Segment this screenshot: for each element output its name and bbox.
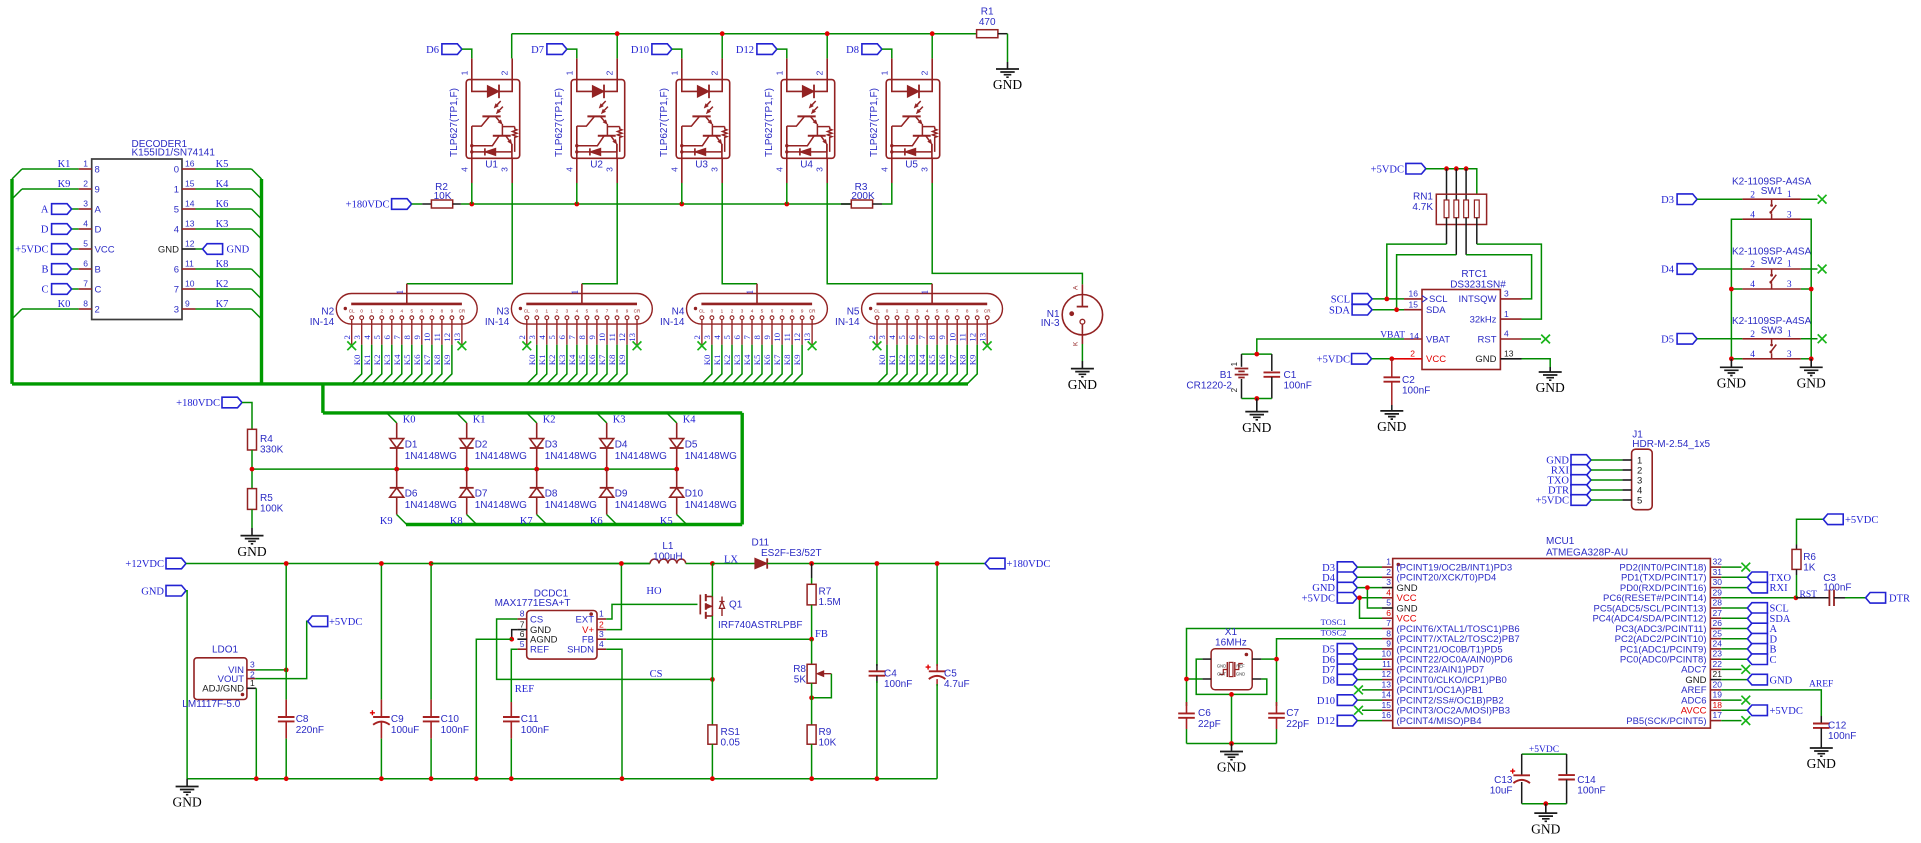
junction SCL <box>1384 297 1389 302</box>
port +180VDC (opto rail) <box>346 199 412 211</box>
svg-text:4: 4 <box>537 335 547 340</box>
svg-text:1: 1 <box>370 308 373 313</box>
port GND (J1) <box>1546 455 1591 467</box>
MCU1 pin 7 (PCINT6/XTAL1/TOSC1)PB6 <box>1382 618 1520 635</box>
svg-text:0: 0 <box>886 308 889 313</box>
wire net K5 (decoder right) <box>196 159 262 179</box>
bus entry K1 (matrix top) <box>457 413 486 426</box>
wire SW3 pin1 no-connect <box>1801 338 1818 340</box>
svg-text:D3: D3 <box>1661 195 1674 206</box>
MCU pin 17 no-connect X <box>1721 716 1750 725</box>
wire VOUT to +5VDC port <box>255 621 307 678</box>
svg-text:ADJ/GND: ADJ/GND <box>202 684 244 695</box>
svg-text:4: 4 <box>401 308 404 313</box>
svg-text:3: 3 <box>83 199 88 209</box>
diode D9 1N4148WG <box>600 469 667 514</box>
svg-text:7: 7 <box>742 335 752 340</box>
svg-text:D12: D12 <box>736 45 754 56</box>
wire X1 GND loop <box>1196 659 1267 743</box>
capacitor C7 22pF <box>1268 702 1309 744</box>
port D6 (MCU) <box>1322 654 1357 666</box>
svg-text:+5VDC: +5VDC <box>329 617 362 628</box>
ground symbol (battery) <box>1256 399 1258 412</box>
svg-text:2: 2 <box>517 335 527 339</box>
wire GND port to pins 3,5 <box>1357 588 1382 608</box>
svg-text:+5VDC: +5VDC <box>1302 594 1335 605</box>
RTC1 pin 13 GND <box>1475 349 1521 366</box>
RTC1 pin 14 VBAT <box>1404 331 1450 345</box>
svg-text:1: 1 <box>599 609 604 619</box>
svg-text:13: 13 <box>627 332 637 341</box>
svg-text:HO: HO <box>646 586 662 597</box>
wire N5 cathode K1 to bus <box>887 345 897 384</box>
svg-text:X1: X1 <box>1225 627 1238 638</box>
MCU1 pin 28 PC5(ADC5/SCL/PCINT13) <box>1594 598 1723 615</box>
junction on anode rail at U4 <box>825 31 830 36</box>
svg-text:1: 1 <box>1386 557 1391 567</box>
svg-text:D7: D7 <box>475 489 488 500</box>
svg-text:K1: K1 <box>362 355 372 366</box>
svg-text:17: 17 <box>1713 710 1723 720</box>
N3 pin 13 no-connect X <box>633 341 642 350</box>
capacitor C11 100nF <box>503 702 549 779</box>
port +5VDC (RTC VCC) <box>1317 354 1372 366</box>
svg-text:+5VDC: +5VDC <box>1529 745 1559 755</box>
svg-text:3: 3 <box>815 167 825 172</box>
port +180VDC (boost output) <box>985 558 1050 570</box>
svg-text:C: C <box>41 285 48 296</box>
wire V+ pin2 to +12V rail <box>606 564 621 630</box>
N4 pin 5 (2) <box>722 308 734 344</box>
port B (decoder input) <box>41 264 78 276</box>
svg-text:D8: D8 <box>545 489 558 500</box>
svg-text:K9: K9 <box>967 354 977 365</box>
svg-text:TOSC1: TOSC1 <box>1321 617 1347 627</box>
wire R3 to U5 pin4 <box>882 183 892 204</box>
U1 internal output transistor Q-B <box>473 136 512 152</box>
svg-text:2: 2 <box>731 308 734 313</box>
svg-text:13: 13 <box>802 332 812 341</box>
wire TOSC2 (pin8 to crystal) <box>1277 628 1383 707</box>
wire N2 cathode K4 to bus <box>392 345 402 384</box>
svg-text:4: 4 <box>362 335 372 340</box>
wire U3 pin3 to nixie N4 anode <box>722 183 757 284</box>
svg-text:3: 3 <box>391 308 394 313</box>
svg-text:GND: GND <box>1236 672 1245 677</box>
junction ground rail at AGND <box>474 776 479 781</box>
diode D1 1N4148WG <box>390 423 457 469</box>
bus entry K5 (matrix bottom) <box>660 515 687 528</box>
svg-text:2: 2 <box>381 308 384 313</box>
junction +12V rail at V+ <box>619 561 624 566</box>
svg-text:K3: K3 <box>216 219 229 230</box>
svg-text:6: 6 <box>382 335 392 340</box>
svg-text:4: 4 <box>774 167 784 172</box>
MCU1 pin 24 PC1(ADC1/PCINT9) <box>1620 639 1722 656</box>
ground symbol (RTC) <box>1549 367 1551 372</box>
wire CS pin8 loop <box>497 619 713 679</box>
N2 pin 7 (4) <box>392 308 404 344</box>
MCU1 pin 26 PC3(ADC3/PCINT11) <box>1615 618 1722 635</box>
bus diode matrix top (K0-K4) <box>323 411 742 414</box>
svg-text:3: 3 <box>702 335 712 340</box>
wire +180VDC to R2 <box>412 203 423 205</box>
svg-text:1N4148WG: 1N4148WG <box>475 500 527 511</box>
svg-text:2: 2 <box>605 70 615 75</box>
junction VCC/C2 <box>1389 356 1394 361</box>
bus entry K3 (matrix top) <box>597 413 626 426</box>
wire X1 OUT to TOSC1 <box>1186 678 1203 680</box>
svg-text:5: 5 <box>936 308 939 313</box>
U1 internal protection diode <box>470 126 512 158</box>
port RXI (J1) <box>1551 465 1591 477</box>
bus left vertical (K0-K9) <box>10 179 13 384</box>
svg-text:3: 3 <box>916 308 919 313</box>
wire N3 cathode K3 to bus <box>557 345 567 384</box>
svg-text:K9: K9 <box>792 354 802 365</box>
svg-text:VBAT: VBAT <box>1380 330 1405 340</box>
svg-text:1N4148WG: 1N4148WG <box>545 500 597 511</box>
svg-text:CS: CS <box>650 669 663 680</box>
svg-text:K2: K2 <box>216 279 229 290</box>
DCDC1 pin 1 EXT <box>576 609 607 626</box>
svg-text:R9: R9 <box>819 727 832 738</box>
svg-text:D: D <box>41 225 49 236</box>
bus entry K2 (matrix top) <box>527 413 556 426</box>
decoder pin 16 (0) <box>174 159 196 176</box>
svg-text:K7: K7 <box>772 354 782 365</box>
svg-text:16: 16 <box>185 159 195 169</box>
N4 pin 11 (8) <box>782 308 794 344</box>
svg-text:GND: GND <box>1217 760 1246 775</box>
junction RST <box>1794 595 1799 600</box>
svg-text:1: 1 <box>1787 330 1792 340</box>
svg-text:5: 5 <box>174 204 179 215</box>
junction GND pins <box>1365 585 1370 590</box>
svg-text:C14: C14 <box>1577 775 1596 786</box>
wire REF pin5 to C11 <box>511 649 517 702</box>
wire net K1 (decoder left) <box>12 159 79 179</box>
port D3 <box>1661 194 1697 206</box>
wire N2 cathode K3 to bus <box>382 345 392 384</box>
svg-text:4: 4 <box>459 167 469 172</box>
wire U3 pin2 drop <box>721 34 723 59</box>
svg-text:0: 0 <box>536 308 539 313</box>
svg-text:K3: K3 <box>907 354 917 365</box>
svg-text:20: 20 <box>1713 679 1723 689</box>
svg-text:100nF: 100nF <box>441 725 469 736</box>
svg-text:TLP627(TP1,F): TLP627(TP1,F) <box>869 88 880 157</box>
svg-text:1: 1 <box>250 678 255 688</box>
svg-text:+5VDC: +5VDC <box>1770 706 1803 717</box>
N1 cathode pin K <box>1072 324 1082 346</box>
svg-text:CR: CR <box>984 308 991 313</box>
svg-text:U1: U1 <box>485 159 498 170</box>
svg-text:K0: K0 <box>877 354 887 365</box>
wire R6 to +5VDC <box>1797 519 1824 544</box>
svg-text:GND: GND <box>1377 419 1406 434</box>
svg-text:5K: 5K <box>794 675 807 686</box>
N2 pin 11 (8) <box>432 308 444 344</box>
junction ground rail at C10 <box>429 776 434 781</box>
resistor R6 1K <box>1792 545 1816 598</box>
svg-text:RXI: RXI <box>1770 583 1789 594</box>
N3 pin 2 no-connect X <box>522 341 531 350</box>
svg-text:6: 6 <box>557 335 567 340</box>
svg-text:C9: C9 <box>391 714 404 725</box>
svg-text:7: 7 <box>956 308 959 313</box>
svg-text:100nF: 100nF <box>1577 786 1605 797</box>
N1 anode pin A <box>1072 284 1088 306</box>
U3 internal output transistor Q-B <box>683 136 722 152</box>
U4 internal phototransistor Q-A <box>787 116 818 135</box>
wire N2 cathode K1 to bus <box>362 345 372 384</box>
wire D7 to U2 pin1 <box>567 49 577 58</box>
svg-text:D2: D2 <box>475 440 488 451</box>
resistor RS1 0.05 <box>708 679 741 778</box>
svg-text:AREF: AREF <box>1809 680 1833 690</box>
svg-text:8: 8 <box>927 335 937 340</box>
decoder pin 8 (2) <box>79 299 100 316</box>
wire D8 to MCU <box>1357 679 1382 681</box>
svg-text:220nF: 220nF <box>296 725 324 736</box>
svg-text:K9: K9 <box>58 179 71 190</box>
N2 pin 13 no-connect X <box>458 341 467 350</box>
svg-text:22: 22 <box>1713 659 1723 669</box>
svg-text:2: 2 <box>599 619 604 629</box>
svg-text:9: 9 <box>762 335 772 340</box>
svg-text:VCC: VCC <box>95 244 115 255</box>
wire RESET to RST node <box>1721 597 1796 599</box>
wire anode rail (top, to R1) <box>512 33 977 35</box>
svg-text:K8: K8 <box>216 259 229 270</box>
junction +12V rail at C10 <box>429 561 434 566</box>
battery B1 CR1220-2 <box>1186 354 1248 398</box>
N4 pin 12 (9) <box>792 308 804 344</box>
svg-text:SCL: SCL <box>1429 294 1447 305</box>
J1 pin 5 <box>1622 495 1642 506</box>
svg-text:10: 10 <box>422 332 432 341</box>
junction ground rail at C4 <box>875 776 880 781</box>
ground symbol (decoupling) <box>1545 804 1547 813</box>
svg-text:CL: CL <box>349 308 355 313</box>
LDO1 pin 1 ADJ/GND <box>202 678 256 695</box>
svg-text:1: 1 <box>921 289 931 294</box>
N2 pin 3 (0) <box>352 308 364 344</box>
svg-text:K1: K1 <box>473 415 486 426</box>
svg-text:K1: K1 <box>712 355 722 366</box>
U2 internal base-emitter resistor <box>607 127 622 152</box>
diode D5 1N4148WG <box>670 423 737 469</box>
U2 internal light arrows <box>599 101 608 114</box>
svg-text:3: 3 <box>599 629 604 639</box>
svg-text:D6: D6 <box>405 489 418 500</box>
wire switch ground rail left <box>1731 219 1742 359</box>
N4 pin 2 no-connect X <box>698 341 707 350</box>
N4 pin 10 (7) <box>772 308 784 344</box>
junction LX <box>710 561 715 566</box>
svg-text:K3: K3 <box>382 354 392 365</box>
svg-text:5: 5 <box>722 335 732 340</box>
svg-text:1: 1 <box>1230 361 1239 366</box>
svg-text:1N4148WG: 1N4148WG <box>475 451 527 462</box>
svg-text:1: 1 <box>669 70 679 75</box>
junction emitter rail at U3 pin4 <box>679 202 684 207</box>
svg-text:6: 6 <box>596 308 599 313</box>
wire net K4 (decoder right) <box>196 179 262 199</box>
bus drop to diode matrix <box>321 384 324 413</box>
port C (MCU right) <box>1721 654 1776 666</box>
svg-text:4: 4 <box>599 639 604 649</box>
svg-text:C10: C10 <box>441 714 460 725</box>
svg-text:R5: R5 <box>260 493 273 504</box>
svg-text:C12: C12 <box>1828 721 1847 732</box>
svg-text:32: 32 <box>1713 557 1723 567</box>
wire +5VDC to VCC <box>1372 358 1392 360</box>
svg-text:K4: K4 <box>742 354 752 365</box>
wire EXT pin1 to HO <box>606 604 697 619</box>
svg-text:16: 16 <box>1409 289 1419 299</box>
U4 internal output transistor Q-B <box>788 136 827 152</box>
junction AGND <box>509 637 514 642</box>
svg-text:5: 5 <box>411 308 414 313</box>
svg-text:K3: K3 <box>613 415 626 426</box>
svg-text:K7: K7 <box>597 354 607 365</box>
capacitor C3 100nF <box>1796 573 1852 606</box>
wire C3 to DTR <box>1845 597 1866 599</box>
svg-text:B: B <box>95 264 101 275</box>
svg-text:K5: K5 <box>216 159 229 170</box>
wire FB pin3 to FB node <box>606 638 811 640</box>
svg-text:IN-3: IN-3 <box>1041 318 1060 329</box>
U4 pin 4 (emitter) <box>774 158 787 183</box>
wire crystal ground rail <box>1187 743 1277 745</box>
N4 pin 2 (CL) <box>692 308 705 344</box>
MCU1 pin 4 VCC <box>1382 587 1417 604</box>
svg-text:6: 6 <box>1386 608 1391 618</box>
wire D7 to MCU <box>1357 668 1382 670</box>
U5 internal LED <box>892 80 932 99</box>
inductor L1 100uH <box>650 541 686 564</box>
svg-text:GND: GND <box>227 245 250 256</box>
N2 pin 10 (7) <box>422 308 434 344</box>
svg-text:8: 8 <box>441 308 444 313</box>
MCU1 pin 30 PD0(RXD/PCINT16) <box>1620 577 1722 594</box>
port +180VDC (divider) <box>176 397 242 409</box>
capacitor C4 100nF <box>869 564 913 779</box>
wire D8 to U5 pin1 <box>882 49 892 58</box>
wire N4 cathode K7 to bus <box>772 345 782 384</box>
U1 pin 2 (cathode) <box>500 58 513 79</box>
svg-text:GND: GND <box>158 244 179 255</box>
svg-text:K3: K3 <box>557 354 567 365</box>
N3 pin 8 (5) <box>577 308 589 344</box>
svg-text:2: 2 <box>710 70 720 75</box>
IC MCU1 ATMEGA328P-AU body <box>1393 536 1711 728</box>
port RXI (MCU) <box>1721 582 1788 594</box>
U4 internal base-emitter resistor <box>817 127 832 152</box>
svg-text:K0: K0 <box>527 354 537 365</box>
junction VCC pins <box>1357 595 1362 600</box>
RTC1 pin 3 INTSQW <box>1459 289 1522 306</box>
svg-text:13: 13 <box>1504 349 1514 359</box>
wire U2 pin3 to nixie N3 anode <box>582 183 617 284</box>
svg-text:K4: K4 <box>567 354 577 365</box>
svg-text:(PCINT4/MISO)PB4: (PCINT4/MISO)PB4 <box>1397 716 1482 727</box>
svg-text:C13: C13 <box>1494 775 1513 786</box>
port TXO (J1) <box>1547 475 1591 487</box>
wire N3 cathode K1 to bus <box>537 345 547 384</box>
wire D3 to SW1 pin2 <box>1697 198 1742 200</box>
regulator LDO1 LM1117F-5.0 body <box>182 645 247 711</box>
decoder pin 9 (3) <box>174 299 196 316</box>
svg-text:7: 7 <box>520 619 525 629</box>
svg-text:1: 1 <box>774 70 784 75</box>
junction +5V at RN1 column 1446 <box>1444 166 1449 171</box>
svg-text:2: 2 <box>342 335 352 339</box>
svg-text:LM1117F-5.0: LM1117F-5.0 <box>182 699 240 710</box>
junction SW2-4 <box>1729 287 1734 292</box>
svg-text:K5: K5 <box>402 354 412 365</box>
svg-text:0.05: 0.05 <box>721 738 741 749</box>
svg-text:22pF: 22pF <box>1286 719 1309 730</box>
wire SW3 row2 left stub <box>1731 358 1742 360</box>
svg-text:GND: GND <box>1068 377 1097 392</box>
svg-text:D4: D4 <box>1661 265 1675 276</box>
bus entry K8 (matrix bottom) <box>450 515 477 528</box>
svg-text:100K: 100K <box>260 504 284 515</box>
svg-text:VBAT: VBAT <box>1426 334 1450 345</box>
LDO1 pin 2 VOUT <box>218 670 256 685</box>
DCDC1 pin 3 FB <box>582 629 606 646</box>
wire N4 cathode K0 to bus <box>702 345 712 384</box>
svg-text:1: 1 <box>564 70 574 75</box>
N3 pin 6 (3) <box>557 308 569 344</box>
svg-text:12: 12 <box>442 333 452 342</box>
svg-text:3: 3 <box>741 308 744 313</box>
junction +180V rail at R7 <box>809 561 814 566</box>
svg-text:200K: 200K <box>851 191 875 202</box>
svg-text:5: 5 <box>586 308 589 313</box>
svg-text:100uF: 100uF <box>391 725 419 736</box>
decoder pin 5 (VCC) <box>79 239 115 256</box>
MCU1 pin 5 GND <box>1382 598 1418 615</box>
svg-text:+5VDC: +5VDC <box>1536 496 1569 507</box>
optocoupler U1 TLP627 body <box>449 80 520 171</box>
N3 pin 4 (1) <box>537 308 549 344</box>
MCU pin 32 no-connect X <box>1721 563 1750 572</box>
svg-text:28: 28 <box>1713 598 1723 608</box>
wire U4 pin2 drop <box>826 34 828 59</box>
svg-text:K4: K4 <box>917 354 927 365</box>
svg-text:K0: K0 <box>58 299 71 310</box>
wire X1 REF to TOSC2 <box>1261 658 1276 660</box>
svg-text:C11: C11 <box>521 714 539 725</box>
svg-text:5: 5 <box>372 335 382 340</box>
decoder pin 15 (1) <box>174 179 196 196</box>
svg-text:A: A <box>1072 285 1079 290</box>
ground symbol (N1) <box>1081 361 1083 369</box>
U5 pin 3 (collector) <box>920 158 933 183</box>
junction SW3-3 <box>1809 356 1814 361</box>
RTC1 pin 15 SDA <box>1404 299 1446 316</box>
U2 pin 4 (emitter) <box>564 158 577 183</box>
svg-text:K4: K4 <box>683 415 697 426</box>
MCU1 pin 23 PC0(ADC0/PCINT8) <box>1620 649 1722 666</box>
svg-text:5: 5 <box>1386 598 1391 608</box>
svg-text:IRF740ASTRLPBF: IRF740ASTRLPBF <box>718 620 802 631</box>
U1 pin 3 (collector) <box>500 158 513 183</box>
